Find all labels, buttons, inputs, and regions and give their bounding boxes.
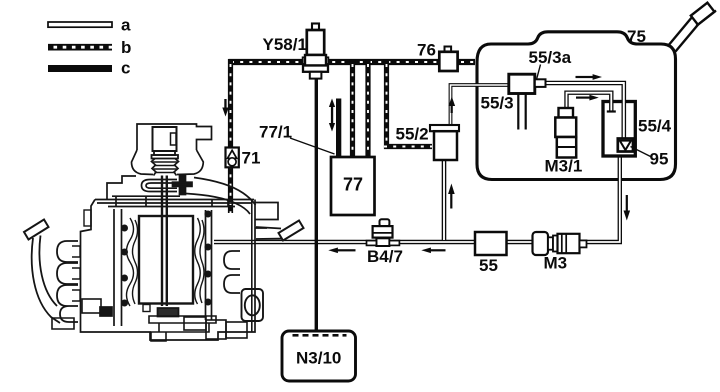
valve 71 (226, 148, 239, 168)
arrow right over pipe (576, 74, 603, 80)
pointer line 77/1 (290, 138, 335, 154)
svg-text:77: 77 (343, 175, 363, 195)
wire: dashed V2 into box 77 (350, 59, 355, 157)
svg-text:77/1: 77/1 (259, 123, 292, 142)
filler neck (668, 14, 702, 52)
svg-text:c: c (121, 59, 130, 78)
air cleaner outer (137, 124, 212, 150)
engine (24, 124, 304, 341)
wire: 55/2 top to 55/3 (thin a) (451, 85, 510, 125)
arrow left on main line (near 55/2 riser) (421, 248, 445, 254)
right inner band (206, 210, 212, 320)
bellows (152, 159, 179, 176)
top-left shoulder (107, 176, 136, 200)
left manifold runners (57, 241, 78, 322)
component 76 (439, 47, 457, 72)
valve 95 in canister (618, 139, 633, 152)
block outline (81, 200, 256, 341)
sensor B4/7 (367, 219, 400, 246)
arrow up beside 55/2 top line (449, 97, 456, 114)
left downpipe (32, 236, 60, 324)
wire: fuel main line (type a) with right riser to 95 (214, 151, 620, 242)
canister 55/4 (603, 102, 635, 157)
right flange and duct (256, 227, 285, 239)
right manifold bumps (224, 251, 240, 293)
filler cap (689, 1, 716, 25)
svg-text:55/4: 55/4 (638, 117, 672, 136)
central shaft (162, 176, 167, 307)
svg-text:75: 75 (627, 27, 646, 46)
right steps (255, 203, 278, 229)
svg-text:76: 76 (417, 41, 436, 60)
filter 55 (475, 232, 507, 255)
bolt dots right (205, 211, 212, 218)
svg-text:55/3a: 55/3a (529, 48, 572, 67)
tank 75 outline (477, 32, 676, 180)
svg-text:B4/7: B4/7 (367, 247, 403, 266)
pump M3 (533, 232, 587, 255)
dark T (180, 176, 186, 195)
left inner band (114, 209, 122, 326)
svg-text:M3: M3 (544, 254, 568, 273)
pump M3/1 (555, 108, 576, 158)
svg-text:b: b (121, 38, 131, 57)
svg-text:Y58/1: Y58/1 (263, 35, 307, 54)
legend line c (solid) (48, 59, 130, 78)
svg-text:71: 71 (242, 149, 261, 168)
control unit N3/10 (282, 331, 356, 381)
bottom pan (158, 308, 179, 317)
legend line a (hollow) (48, 16, 131, 35)
left flange (24, 220, 49, 240)
component 55/3 (509, 74, 546, 93)
pointer line 55/3a (537, 65, 541, 80)
svg-text:55/3: 55/3 (481, 94, 514, 113)
wire: electric line Y58/1 to N3/10 (315, 79, 318, 331)
pointer line 95 (631, 147, 651, 157)
throttle loop hose (142, 180, 178, 192)
svg-text:55: 55 (479, 256, 498, 275)
wire: riser from main line to 55/2 bottom (442, 160, 447, 240)
svg-text:a: a (121, 16, 131, 35)
arrow up beside 55/2 riser (448, 184, 455, 209)
box 77 (331, 157, 375, 215)
wire: dashed V1 to valve 71 / engine (228, 59, 233, 213)
wire: dashed V3 into box 77 (365, 59, 370, 157)
svg-text:95: 95 (650, 150, 669, 169)
arrow down on V1 (222, 99, 228, 117)
arrow left on main line (near engine) (328, 248, 355, 254)
svg-text:55/2: 55/2 (396, 125, 429, 144)
right port (242, 289, 264, 321)
svg-text:M3/1: M3/1 (545, 157, 583, 176)
central cylinder (139, 216, 193, 304)
wire: dashed vacuum main H1 (229, 59, 476, 65)
arrow right under loop pipe (576, 95, 599, 101)
arrow down on right riser (624, 195, 631, 221)
svg-text:N3/10: N3/10 (296, 349, 341, 368)
wire: dashed V4 + H2 to 55/2 (384, 59, 432, 147)
pipe 55/3 to canister (546, 83, 624, 138)
pipe below 55/3 (517, 94, 527, 131)
valve Y58/1 (303, 24, 329, 79)
cam cover lines (95, 196, 254, 206)
duct to right (186, 178, 256, 215)
component 55/2 (430, 125, 459, 160)
bolt dots left (121, 225, 128, 232)
legend line b (dashed) (48, 38, 131, 57)
double arrow at 77/1 (329, 99, 335, 132)
pipe M3/1 loop into canister (567, 93, 616, 112)
wire: thick bar 77/1 (336, 99, 341, 158)
